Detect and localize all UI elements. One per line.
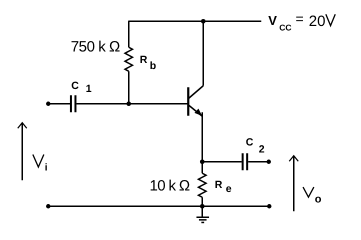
svg-text:CC: CC	[279, 23, 291, 33]
wire: emitter node to C2	[202, 161, 242, 163]
wire: Rb to base node	[128, 71, 130, 104]
label C2	[246, 136, 265, 155]
wire: emitter node down to Re	[201, 162, 203, 174]
svg-text:C: C	[71, 80, 79, 92]
label Vi	[33, 154, 48, 173]
junction node: emitter node	[200, 159, 205, 164]
arrow: output voltage direction	[289, 156, 298, 212]
svg-text:C: C	[246, 136, 254, 148]
svg-text:i: i	[45, 162, 48, 173]
junction node: collector tap on top rail	[201, 19, 206, 24]
svg-text:20: 20	[309, 13, 326, 30]
arrow: input voltage direction	[18, 123, 27, 181]
label Vo	[303, 187, 322, 205]
transistor Q1 (NPN)	[188, 86, 203, 117]
svg-text:b: b	[150, 60, 156, 72]
resistor R1 (Rb) zigzag	[125, 47, 132, 71]
wire: base node to transistor base	[129, 103, 188, 105]
wire: bottom rail	[48, 205, 269, 207]
wire: C1 to base node	[76, 103, 128, 105]
label Re	[215, 179, 232, 195]
junction node: ground tap on bottom rail	[200, 204, 205, 209]
svg-text:750 k Ω: 750 k Ω	[71, 38, 121, 55]
wire: input terminal to C1	[48, 103, 70, 105]
wire: collector up to top rail	[202, 21, 204, 86]
svg-text:V: V	[268, 13, 277, 28]
wire: Re to ground rail	[201, 197, 203, 206]
capacitor C2	[243, 153, 248, 170]
svg-text:2: 2	[259, 143, 265, 155]
svg-text:1: 1	[86, 83, 92, 95]
terminal node: bottom right	[267, 204, 271, 208]
svg-text:o: o	[315, 193, 322, 205]
capacitor C1	[71, 95, 76, 112]
input terminal node	[46, 102, 50, 106]
svg-text:e: e	[226, 183, 232, 195]
terminal node: bottom left	[46, 204, 50, 208]
svg-text:R: R	[215, 179, 223, 191]
label C1	[71, 80, 92, 95]
output terminal node	[267, 160, 271, 164]
resistor R2 (Re) zigzag	[198, 173, 206, 197]
svg-text:=: =	[296, 11, 304, 27]
wire: top rail down to resistor Rb	[128, 21, 130, 47]
label Rb	[140, 54, 156, 72]
label Vcc = 20 V	[268, 11, 335, 33]
wire: top supply rail	[128, 20, 261, 22]
wire: emitter down to emitter node	[201, 112, 203, 162]
ground	[196, 206, 209, 222]
junction node: base node	[126, 101, 131, 106]
svg-text:R: R	[140, 54, 148, 66]
wire: C2 to output terminal	[248, 161, 269, 163]
svg-text:10 k Ω: 10 k Ω	[150, 178, 191, 195]
